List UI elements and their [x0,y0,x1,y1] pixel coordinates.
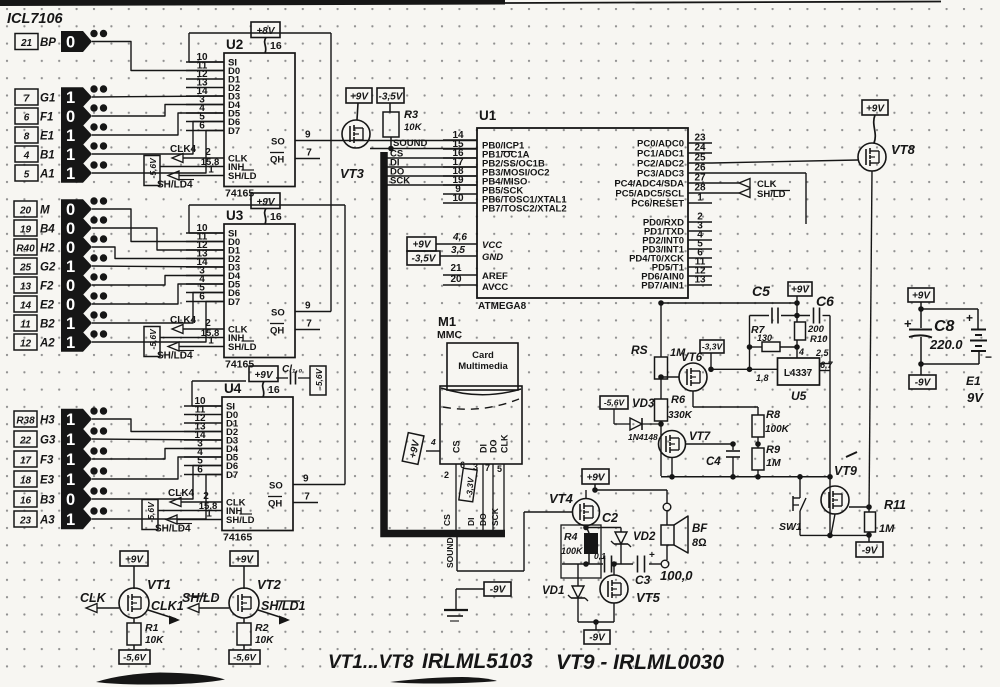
svg-text:4,6: 4,6 [452,232,467,243]
svg-text:8: 8 [24,132,30,143]
svg-text:1: 1 [66,315,75,333]
svg-text:DI: DI [466,518,476,527]
svg-text:DI: DI [479,444,489,453]
svg-text:VT4: VT4 [549,491,574,506]
svg-text:GND: GND [482,252,503,263]
svg-text:1: 1 [66,89,75,107]
svg-text:+: + [966,311,973,325]
svg-text:-9V: -9V [862,546,879,557]
svg-text:E2: E2 [40,300,55,312]
svg-text:100K: 100K [765,424,790,435]
svg-text:Multimedia: Multimedia [458,361,508,372]
svg-text:0: 0 [66,491,75,509]
svg-text:7: 7 [304,492,310,503]
svg-text:1: 1 [66,146,75,164]
svg-text:U2: U2 [226,37,243,52]
svg-text:20: 20 [19,206,32,217]
svg-text:G2: G2 [40,262,56,274]
svg-text:22: 22 [19,436,32,447]
svg-text:74165: 74165 [223,532,252,544]
svg-text:F3: F3 [40,455,54,467]
svg-text:10K: 10K [404,122,423,133]
svg-text:6: 6 [24,113,30,124]
svg-text:E1: E1 [966,374,981,388]
svg-text:-5,6V: -5,6V [233,653,256,664]
svg-text:7: 7 [485,463,490,473]
svg-text:VT2: VT2 [257,577,282,592]
svg-text:-5,6V: -5,6V [123,653,146,664]
svg-text:+9V: +9V [254,370,273,381]
svg-text:0: 0 [66,239,75,257]
svg-text:VD3: VD3 [632,398,655,410]
svg-text:C2: C2 [602,511,618,525]
svg-text:CS: CS [452,440,462,453]
svg-text:VT7: VT7 [689,431,711,443]
svg-text:-9V: -9V [915,378,932,389]
svg-text:+9V: +9V [586,473,605,484]
svg-text:SOUND: SOUND [445,537,455,568]
svg-text:+: + [904,316,912,331]
svg-text:-5,6V: -5,6V [148,157,158,179]
svg-text:-5,6V: -5,6V [314,367,324,389]
svg-text:1: 1 [66,411,75,429]
svg-text:QH: QH [268,499,282,510]
svg-text:+9V: +9V [125,555,144,566]
svg-text:IRLML5103: IRLML5103 [422,650,533,673]
svg-text:16: 16 [270,40,282,52]
svg-text:B3: B3 [40,495,55,507]
svg-text:ICL7106: ICL7106 [7,11,64,27]
svg-text:+9V: +9V [256,197,275,208]
svg-text:PC6/RESET: PC6/RESET [631,199,684,210]
svg-text:CLK: CLK [500,434,510,453]
svg-text:1: 1 [66,471,75,489]
svg-text:100,0: 100,0 [660,568,693,583]
svg-text:B2: B2 [40,319,55,331]
svg-text:SH/LD4: SH/LD4 [157,180,193,191]
svg-text:10K: 10K [145,635,164,646]
svg-text:VD1: VD1 [542,585,564,597]
svg-text:1: 1 [66,431,75,449]
svg-text:MMC: MMC [437,329,462,341]
svg-text:0: 0 [66,108,75,126]
svg-text:+9V: +9V [912,291,931,302]
svg-text:74165: 74165 [225,359,254,371]
svg-text:F2: F2 [40,281,54,293]
svg-text:13: 13 [694,275,706,286]
svg-text:7: 7 [24,94,30,105]
svg-text:4: 4 [23,151,30,162]
svg-text:SH/LD: SH/LD [228,171,257,182]
svg-text:SCK: SCK [490,507,500,526]
svg-text:12: 12 [20,339,32,350]
svg-text:SH/LD: SH/LD [182,591,220,605]
svg-text:VT9: VT9 [834,464,857,478]
svg-text:SH/LD4: SH/LD4 [155,524,191,535]
svg-text:14: 14 [20,301,32,312]
svg-text:C3: C3 [635,573,651,587]
svg-text:74165: 74165 [225,188,254,200]
svg-text:-3,3V: -3,3V [702,342,724,352]
svg-text:0: 0 [66,201,75,219]
svg-text:B4: B4 [40,224,55,236]
svg-text:ATMEGA8: ATMEGA8 [478,301,527,312]
svg-text:9V: 9V [967,390,984,405]
svg-text:A3: A3 [39,515,55,527]
svg-text:-3,5V: -3,5V [379,92,404,103]
svg-text:Card: Card [472,350,494,361]
svg-text:1: 1 [66,334,75,352]
svg-text:23: 23 [19,516,32,527]
svg-text:AVCC: AVCC [482,282,508,293]
svg-text:16: 16 [268,384,280,396]
svg-text:E3: E3 [40,475,55,487]
svg-text:M: M [40,205,50,217]
svg-text:3,5: 3,5 [451,245,465,256]
svg-text:CLK1: CLK1 [151,599,184,613]
svg-text:5: 5 [497,464,502,474]
svg-text:4: 4 [430,437,436,447]
svg-text:RS: RS [631,343,648,357]
svg-text:1: 1 [66,165,75,183]
svg-text:AREF: AREF [482,271,508,282]
svg-text:6,7: 6,7 [820,360,834,370]
svg-text:20: 20 [450,274,462,285]
svg-text:+9V: +9V [791,285,810,296]
svg-text:M1: M1 [438,314,456,329]
svg-text:9: 9 [305,130,311,141]
svg-text:1: 1 [206,509,212,520]
svg-text:11: 11 [20,320,31,331]
svg-text:0: 0 [66,34,75,52]
svg-text:+8V: +8V [256,26,275,37]
svg-text:330K: 330K [668,410,693,421]
svg-text:+9V: +9V [866,104,885,115]
svg-text:BP: BP [40,37,56,49]
svg-text:1M: 1M [766,457,781,469]
svg-text:A1: A1 [39,169,55,181]
svg-text:SCK: SCK [390,176,410,187]
svg-text:10: 10 [452,193,464,204]
svg-text:-3,5V: -3,5V [412,254,437,265]
svg-text:-9V: -9V [589,633,606,644]
svg-text:5: 5 [24,170,30,181]
svg-text:1: 1 [66,127,75,145]
svg-text:B1: B1 [40,150,55,162]
svg-text:DO: DO [489,440,499,454]
svg-text:PB7/TOSC2/XTAL2: PB7/TOSC2/XTAL2 [482,204,567,215]
svg-text:7: 7 [306,319,312,330]
svg-text:1,8: 1,8 [756,373,769,383]
svg-text:SH/LD4: SH/LD4 [157,351,193,362]
svg-text:17: 17 [20,456,32,467]
svg-text:19: 19 [20,225,32,236]
svg-text:C6: C6 [816,293,834,309]
svg-text:R11: R11 [884,498,906,512]
svg-text:Cl₁,₀: Cl₁,₀ [282,364,302,375]
svg-text:C4: C4 [706,456,721,468]
svg-text:SW1: SW1 [779,521,802,533]
svg-text:U5: U5 [791,389,807,403]
svg-text:1: 1 [66,511,75,529]
svg-text:F1: F1 [40,112,53,124]
svg-text:R6: R6 [671,394,686,406]
svg-text:−: − [985,350,992,364]
svg-text:1: 1 [66,451,75,469]
svg-text:18: 18 [20,476,32,487]
svg-text:100K: 100K [561,546,584,556]
svg-text:+9V: +9V [412,240,431,251]
svg-text:CLK4: CLK4 [168,488,195,499]
svg-text:21: 21 [450,263,462,274]
svg-text:VT3: VT3 [340,166,365,181]
svg-text:-3,3V: -3,3V [464,476,476,498]
svg-text:130: 130 [757,333,772,343]
svg-text:220.0: 220.0 [929,337,963,352]
svg-text:DO: DO [478,513,488,526]
svg-text:-9V: -9V [490,585,507,596]
svg-text:SO: SO [271,308,285,319]
svg-text:PD7/AIN1: PD7/AIN1 [641,281,684,292]
svg-text:+: + [649,550,655,561]
svg-text:QH: QH [270,155,284,166]
svg-text:SO: SO [269,481,283,492]
svg-text:16: 16 [270,211,282,223]
svg-text:1: 1 [697,193,703,204]
svg-text:C8: C8 [934,318,955,335]
svg-text:VT8: VT8 [891,142,916,157]
svg-text:-5,6V: -5,6V [604,398,626,408]
svg-text:SH/LD: SH/LD [226,515,255,526]
svg-text:G1: G1 [40,93,55,105]
svg-text:L4337: L4337 [784,368,813,379]
svg-text:VT1: VT1 [147,577,171,592]
svg-text:CLK: CLK [80,591,107,605]
svg-text:R9: R9 [766,444,781,456]
svg-text:D7: D7 [228,126,240,137]
svg-text:VT1...VT8: VT1...VT8 [328,652,414,673]
svg-text:G3: G3 [40,435,56,447]
svg-text:C5: C5 [752,283,770,299]
svg-text:R1: R1 [145,622,159,634]
svg-text:E1: E1 [40,131,54,143]
svg-text:9: 9 [305,301,311,312]
svg-text:CS: CS [442,514,452,526]
svg-text:SH/LD: SH/LD [228,342,257,353]
svg-text:R4: R4 [564,531,578,543]
svg-text:H2: H2 [40,243,55,255]
svg-text:1N4148: 1N4148 [628,432,658,442]
svg-text:R38: R38 [16,416,35,427]
svg-text:D7: D7 [228,297,240,308]
svg-text:10K: 10K [255,635,274,646]
svg-text:+9V: +9V [235,555,254,566]
svg-text:R8: R8 [766,409,781,421]
svg-text:1: 1 [66,258,75,276]
svg-text:16: 16 [20,496,32,507]
svg-text:VCC: VCC [482,240,502,251]
svg-text:0: 0 [66,220,75,238]
svg-text:VT9 - IRLML0030: VT9 - IRLML0030 [556,651,724,674]
svg-text:R40: R40 [16,244,35,255]
svg-text:VD2: VD2 [633,531,656,543]
svg-text:7: 7 [306,148,312,159]
svg-text:U4: U4 [224,381,242,396]
svg-text:VT5: VT5 [636,590,661,605]
svg-text:R10: R10 [810,334,828,345]
svg-text:U1: U1 [479,108,497,123]
svg-text:A2: A2 [39,338,55,350]
svg-text:QH: QH [270,326,284,337]
svg-text:2,5: 2,5 [815,348,830,358]
svg-text:1: 1 [208,336,214,347]
svg-text:25: 25 [19,263,32,274]
svg-text:0: 0 [66,296,75,314]
svg-text:R3: R3 [404,109,418,121]
svg-text:U3: U3 [226,208,244,223]
svg-text:8Ω: 8Ω [692,537,707,549]
svg-text:0: 0 [66,277,75,295]
svg-text:1M: 1M [879,523,895,535]
svg-text:SO: SO [271,137,285,148]
svg-text:D7: D7 [226,470,238,481]
svg-text:R2: R2 [255,622,269,634]
svg-text:-5,6V: -5,6V [148,328,158,350]
svg-text:1M: 1M [670,347,686,359]
svg-text:21: 21 [20,38,33,49]
svg-text:13: 13 [20,282,32,293]
svg-text:H3: H3 [40,415,55,427]
svg-text:SOUND: SOUND [393,138,427,149]
svg-text:BF: BF [692,523,708,535]
svg-text:+9V: +9V [350,92,369,103]
svg-text:1: 1 [208,165,214,176]
svg-text:9: 9 [303,474,309,485]
svg-text:2: 2 [444,470,449,480]
